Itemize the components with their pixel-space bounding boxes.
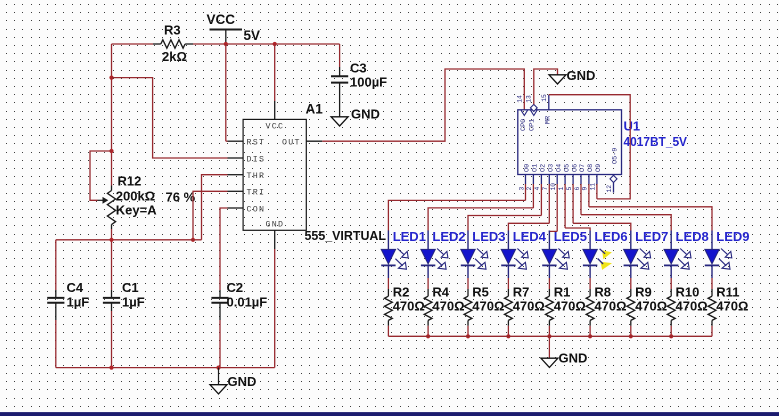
IC U1 4017 counter body <box>518 110 622 175</box>
svg-text:O5: O5 <box>563 164 571 172</box>
resistor R7 <box>505 285 545 326</box>
svg-text:O8: O8 <box>587 164 595 172</box>
svg-text:200kΩ: 200kΩ <box>116 189 155 204</box>
svg-text:470Ω: 470Ω <box>513 299 545 314</box>
resistor R2 <box>385 285 425 326</box>
junction <box>669 334 673 338</box>
svg-text:C2: C2 <box>227 280 244 295</box>
LED LED3 <box>461 229 506 278</box>
svg-text:GND: GND <box>567 68 596 83</box>
LED LED2 <box>421 229 466 278</box>
svg-text:1: 1 <box>558 187 565 191</box>
svg-text:O5-9: O5-9 <box>612 148 620 164</box>
capacitor C1 <box>103 280 145 311</box>
svg-text:LED4: LED4 <box>513 229 547 244</box>
capacitor C2 <box>211 280 267 320</box>
LED LED7 <box>624 229 669 278</box>
wire <box>507 326 509 337</box>
wire <box>112 78 228 158</box>
wire <box>670 278 672 289</box>
svg-text:9: 9 <box>582 187 589 191</box>
wire <box>55 240 57 290</box>
svg-text:11: 11 <box>590 183 597 191</box>
svg-text:GND: GND <box>266 221 285 230</box>
pin Q4 (pin 10) <box>550 164 563 191</box>
svg-text:TRI: TRI <box>247 189 266 198</box>
svg-text:GND: GND <box>559 351 588 366</box>
pin Q3 (pin 7) <box>542 164 555 191</box>
svg-text:MR: MR <box>545 116 553 124</box>
svg-text:2: 2 <box>526 187 533 191</box>
pin Q7 (pin 6) <box>574 164 587 191</box>
svg-text:LED8: LED8 <box>676 229 709 244</box>
svg-text:R8: R8 <box>594 285 611 300</box>
IC A1 555 timer body <box>243 119 306 230</box>
wire <box>193 43 340 45</box>
svg-text:10: 10 <box>550 183 557 191</box>
pin TRI <box>228 189 266 198</box>
pin Q6 (pin 5) <box>566 164 579 191</box>
svg-text:LED3: LED3 <box>472 229 505 244</box>
svg-text:U1: U1 <box>624 119 641 134</box>
pin Q0 (pin 3) <box>518 164 531 191</box>
junction <box>547 334 551 338</box>
svg-text:O6: O6 <box>571 164 579 172</box>
svg-text:470Ω: 470Ω <box>594 299 626 314</box>
svg-text:O7: O7 <box>579 164 587 172</box>
pin Q8 (pin 9) <box>582 164 595 191</box>
window status bar <box>0 412 779 416</box>
junction <box>426 334 430 338</box>
junction <box>588 334 592 338</box>
junction <box>273 42 277 46</box>
label CP1 <box>529 119 537 131</box>
svg-text:R7: R7 <box>513 285 530 300</box>
svg-text:A1: A1 <box>306 102 324 117</box>
pin RST <box>228 139 266 148</box>
wire <box>548 326 550 337</box>
wire <box>589 184 712 231</box>
wire <box>581 184 671 231</box>
junction <box>629 334 633 338</box>
wire <box>202 175 228 240</box>
LED LED8 <box>664 229 709 278</box>
label U1 <box>624 119 641 134</box>
pin THR <box>228 172 266 181</box>
svg-text:555_VIRTUAL: 555_VIRTUAL <box>305 228 387 243</box>
pin OUT <box>282 139 322 148</box>
svg-text:1µF: 1µF <box>122 295 145 310</box>
svg-text:O4: O4 <box>555 164 563 172</box>
svg-text:R2: R2 <box>393 285 410 300</box>
resistor R9 <box>627 285 667 326</box>
wire <box>274 44 276 101</box>
LED LED5 <box>542 229 587 278</box>
svg-text:470Ω: 470Ω <box>635 299 667 314</box>
label MR <box>545 116 553 124</box>
capacitor C4 <box>47 280 89 320</box>
svg-text:CP1: CP1 <box>529 119 537 131</box>
svg-text:R3: R3 <box>164 23 181 38</box>
resistor R11 <box>708 285 748 326</box>
svg-text:O0: O0 <box>524 164 532 172</box>
wire <box>388 184 525 231</box>
svg-text:5V: 5V <box>244 28 261 43</box>
resistor R5 <box>464 285 504 326</box>
power VCC 5V <box>207 12 261 44</box>
pin CP1 (pin 13) <box>526 95 538 115</box>
svg-text:76 %: 76 % <box>166 190 196 205</box>
svg-text:O9: O9 <box>595 164 603 172</box>
svg-text:OUT: OUT <box>282 139 301 148</box>
svg-text:470Ω: 470Ω <box>676 299 708 314</box>
junction <box>506 334 510 338</box>
svg-text:6: 6 <box>574 187 581 191</box>
wire <box>468 184 541 231</box>
wire <box>549 184 557 231</box>
pin MR (pin 15) <box>541 94 549 110</box>
pin O5-9 (pin 12) <box>606 148 620 193</box>
wire <box>711 278 713 289</box>
label CP0 <box>520 119 528 131</box>
wire <box>111 311 113 368</box>
svg-text:470Ω: 470Ω <box>472 299 504 314</box>
svg-text:LED6: LED6 <box>594 229 627 244</box>
resistor R10 <box>667 285 707 326</box>
junction <box>466 334 470 338</box>
ground <box>210 368 256 394</box>
wire <box>467 278 469 289</box>
pin DIS <box>228 155 266 164</box>
svg-text:13: 13 <box>526 95 533 103</box>
pin CON <box>228 205 266 214</box>
wire <box>427 326 429 337</box>
potentiometer R12 <box>98 174 196 230</box>
svg-text:1µF: 1µF <box>67 295 90 310</box>
wire <box>670 326 672 337</box>
wire <box>55 320 57 368</box>
junction <box>224 42 228 46</box>
junction <box>109 149 113 153</box>
junction <box>109 76 113 80</box>
svg-text:470Ω: 470Ω <box>716 299 748 314</box>
wire <box>56 367 275 369</box>
svg-text:4017BT_5V: 4017BT_5V <box>624 134 688 149</box>
pin Q2 (pin 4) <box>534 164 547 191</box>
svg-text:470Ω: 470Ω <box>432 299 464 314</box>
wire <box>467 326 469 337</box>
wire <box>226 140 228 142</box>
resistor R8 <box>586 285 626 326</box>
pin Q5 (pin 1) <box>558 164 572 191</box>
wire <box>548 278 550 289</box>
label 555_VIRTUAL <box>305 228 387 243</box>
pin GND555 <box>266 221 285 250</box>
svg-text:LED9: LED9 <box>716 229 749 244</box>
svg-text:R11: R11 <box>716 285 739 300</box>
wire <box>427 278 429 289</box>
svg-text:R10: R10 <box>676 285 700 300</box>
wire <box>193 191 228 240</box>
wire <box>388 335 712 337</box>
ground <box>541 336 587 367</box>
wire <box>589 278 591 289</box>
wire <box>111 44 113 186</box>
LED LED6 <box>583 229 628 278</box>
junction <box>109 238 113 242</box>
svg-text:DIS: DIS <box>247 155 266 164</box>
wire <box>630 278 632 289</box>
wire <box>274 249 276 368</box>
svg-text:R5: R5 <box>472 285 489 300</box>
wire <box>339 44 341 67</box>
wire <box>225 44 227 141</box>
svg-text:O2: O2 <box>540 164 548 172</box>
svg-text:O1: O1 <box>532 164 540 172</box>
svg-text:7: 7 <box>542 187 549 191</box>
resistor R4 <box>424 285 464 326</box>
ground <box>549 68 595 84</box>
junction <box>216 366 220 370</box>
svg-text:0.01µF: 0.01µF <box>227 295 268 310</box>
svg-text:C1: C1 <box>122 280 139 295</box>
wire <box>428 184 533 231</box>
svg-text:15: 15 <box>541 94 548 102</box>
wire <box>549 95 630 199</box>
svg-text:RST: RST <box>247 139 266 148</box>
svg-text:LED1: LED1 <box>393 229 426 244</box>
wire <box>630 326 632 337</box>
svg-text:LED7: LED7 <box>635 229 668 244</box>
capacitor C3 <box>331 61 387 117</box>
wire <box>711 326 713 337</box>
wire <box>112 43 154 45</box>
svg-text:5: 5 <box>566 187 573 191</box>
wire <box>90 151 112 200</box>
LED LED1 <box>381 229 426 278</box>
wire <box>589 326 591 337</box>
wire <box>111 229 113 290</box>
junction <box>191 238 195 242</box>
junction <box>109 366 113 370</box>
wire <box>219 320 221 368</box>
LED LED9 <box>705 229 750 278</box>
svg-text:GND: GND <box>351 107 380 122</box>
wire <box>220 208 228 290</box>
resistor R3 <box>153 23 193 65</box>
svg-text:C4: C4 <box>67 280 84 295</box>
wire <box>322 69 524 141</box>
svg-text:3: 3 <box>518 187 525 191</box>
wire <box>387 326 389 337</box>
label 4017BT_5V <box>624 134 688 149</box>
svg-text:12: 12 <box>606 185 613 193</box>
ground <box>331 107 380 127</box>
wire <box>507 278 509 289</box>
svg-text:CON: CON <box>247 205 266 214</box>
svg-text:LED5: LED5 <box>554 229 587 244</box>
svg-text:GND: GND <box>228 374 257 389</box>
svg-text:4: 4 <box>534 187 541 191</box>
svg-text:14: 14 <box>517 95 524 103</box>
svg-text:470Ω: 470Ω <box>554 299 586 314</box>
svg-text:R12: R12 <box>118 174 142 189</box>
wire <box>56 239 202 241</box>
wire <box>573 184 631 231</box>
svg-text:R1: R1 <box>554 285 571 300</box>
svg-text:2kΩ: 2kΩ <box>162 49 187 64</box>
svg-text:LED2: LED2 <box>432 229 465 244</box>
svg-text:VCC: VCC <box>207 12 236 27</box>
wire <box>565 184 590 231</box>
svg-text:VCC: VCC <box>266 123 285 132</box>
resistor R1 <box>546 285 586 326</box>
svg-text:C3: C3 <box>350 61 367 76</box>
svg-text:470Ω: 470Ω <box>393 299 425 314</box>
label A1 <box>306 102 324 117</box>
svg-text:R9: R9 <box>635 285 652 300</box>
LED LED4 <box>501 229 547 278</box>
svg-text:R4: R4 <box>432 285 449 300</box>
pin Q1 (pin 2) <box>526 164 539 191</box>
wire <box>387 278 389 289</box>
svg-text:100µF: 100µF <box>350 75 387 90</box>
svg-text:O3: O3 <box>548 164 556 172</box>
pin Q9 (pin 11) <box>590 164 603 191</box>
svg-text:CP0: CP0 <box>520 119 528 131</box>
svg-text:THR: THR <box>247 172 266 181</box>
pin CP0 (pin 14) <box>517 95 528 115</box>
wire <box>508 184 549 231</box>
wire <box>534 69 558 104</box>
svg-text:Key=A: Key=A <box>116 203 157 218</box>
pin VCC <box>266 101 285 132</box>
